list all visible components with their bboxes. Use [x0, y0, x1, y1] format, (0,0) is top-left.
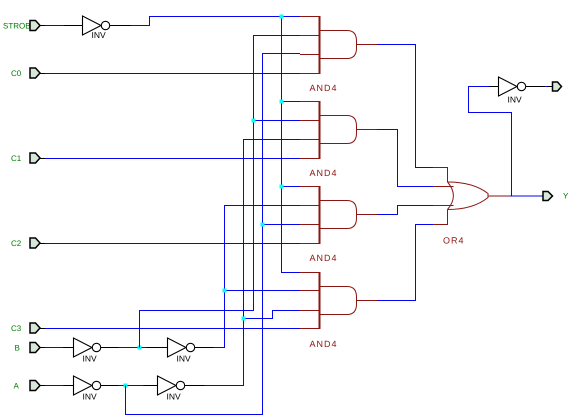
inverter U8b INV (A second)	[158, 376, 185, 402]
wire net NOTB riser to AND column	[140, 36, 301, 348]
wire net C3 to AND4 pin4	[45, 328, 300, 330]
pin out of U2	[526, 86, 545, 88]
pin out of U6	[195, 347, 214, 349]
AND4 gate U3 (top)	[300, 16, 377, 74]
pin 1 of U2	[489, 86, 499, 88]
svg-text:INV: INV	[92, 30, 107, 40]
svg-text:C2: C2	[11, 239, 22, 248]
svg-text:B: B	[15, 344, 20, 353]
wire B to U5	[45, 347, 63, 349]
pin stub B connector	[40, 347, 45, 349]
pin stub C1 connector	[40, 158, 45, 160]
junction NOTA at AND3 row	[261, 223, 265, 227]
pin 1 of U5	[63, 347, 74, 349]
pin out of U1	[110, 25, 131, 27]
junction B2 at AND4 row	[223, 289, 227, 293]
inverter U1 INV (strobe)	[83, 16, 110, 40]
wire AND3 output to OR pin3	[377, 206, 433, 215]
input connector C1	[11, 153, 40, 163]
input connector C2	[11, 238, 40, 248]
wire U2 output to W connector	[545, 86, 547, 88]
output connector W (top right)	[553, 82, 562, 91]
wire NOTSTROBE tap to U5 pin1	[282, 186, 301, 188]
pin stub A connector	[40, 385, 45, 387]
pin 1 of U1	[64, 25, 83, 27]
pin stub C0 connector	[40, 73, 45, 75]
wire A2 branch to U7 pin3	[244, 311, 301, 319]
pin stub C3 connector	[40, 328, 45, 330]
wire AND1 output to OR pin1	[377, 45, 433, 168]
svg-text:C1: C1	[11, 154, 22, 163]
wire net A2 from U8b up to AND column	[205, 140, 301, 386]
wire AND2 output to OR pin2	[377, 130, 433, 187]
svg-text:OR4: OR4	[443, 236, 465, 246]
svg-text:Y: Y	[563, 192, 569, 201]
pin out of U8b	[185, 385, 205, 387]
input connector C0	[11, 68, 40, 78]
svg-text:AND4: AND4	[310, 168, 338, 178]
svg-text:INV: INV	[167, 392, 182, 402]
OR4 gate U9	[433, 168, 510, 225]
wire net B2 from U6 up to AND column	[214, 206, 301, 348]
wire STROBE to U1	[45, 25, 64, 27]
wire net C0 to AND1 pin4	[45, 73, 300, 75]
inverter U6 INV (B second)	[168, 338, 195, 364]
wire net NOTA between U8a and U8b	[119, 385, 144, 387]
pin stub Y connector	[542, 195, 544, 197]
input connector B	[15, 343, 41, 353]
wire net NOTSTROBE vertical trunk	[282, 17, 301, 273]
input connector STROBE	[3, 21, 40, 31]
pin stub STROBE connector	[40, 25, 45, 27]
wire net C1 to AND2 pin4	[45, 158, 300, 160]
input connector C3	[11, 323, 40, 333]
pin stub C2 connector	[40, 243, 45, 245]
junction A2 branch	[242, 317, 246, 321]
inverter U5 INV (B first)	[74, 338, 101, 364]
pin 1 of U8a	[64, 385, 74, 387]
junction NOTA tap	[124, 384, 128, 388]
output connector Y	[543, 192, 569, 201]
wire net NOTB between U5 and U6	[119, 347, 147, 349]
junction NOTB tap	[138, 346, 142, 350]
inverter U2 INV (top right)	[499, 77, 526, 105]
inverter U8a INV (A first)	[74, 376, 101, 402]
junction NOTB at AND2 row	[252, 119, 256, 123]
wire NOTA tap to U5 pin3	[263, 224, 301, 226]
junction NOTSTROBE at AND2 row	[280, 100, 284, 104]
AND4 gate U5b	[300, 186, 377, 244]
junction NOTSTROBE at AND1 row	[280, 15, 284, 19]
AND4 gate U4	[300, 101, 377, 159]
wire OR output to Y connector	[510, 195, 542, 197]
pin 1 of U6	[147, 347, 168, 349]
wire NOTSTROBE tap to U4 pin1	[282, 101, 301, 103]
svg-text:A: A	[14, 382, 20, 391]
wire net C2 to AND3 pin4	[45, 243, 300, 245]
wire NOTB tap to U4 pin2	[254, 120, 301, 122]
input connector A	[14, 381, 41, 391]
pin stub W connector	[547, 86, 553, 88]
svg-text:INV: INV	[508, 95, 523, 105]
svg-text:C0: C0	[11, 69, 22, 78]
AND4 gate U7 (bottom)	[300, 272, 377, 329]
svg-text:INV: INV	[83, 392, 98, 402]
pin out of U5	[101, 347, 119, 349]
wire net NOTA riser to AND column	[126, 54, 301, 415]
svg-text:INV: INV	[83, 354, 98, 364]
svg-text:AND4: AND4	[310, 339, 338, 349]
svg-text:AND4: AND4	[310, 83, 338, 93]
wire B2 tap to U7 pin2	[225, 290, 301, 292]
svg-text:AND4: AND4	[310, 253, 338, 263]
wire AND4 output to OR pin4	[377, 225, 433, 301]
wire A to U7a	[45, 385, 64, 387]
junction NOTSTROBE at AND3 row	[280, 185, 284, 189]
wire OR output branch up to U2 input	[469, 87, 512, 197]
svg-text:C3: C3	[11, 324, 22, 333]
wire net NOTSTROBE from U1 to AND gates column	[131, 17, 301, 26]
pin 1 of U8b	[144, 385, 158, 387]
pin out of U8a	[101, 385, 119, 387]
svg-text:INV: INV	[177, 354, 192, 364]
